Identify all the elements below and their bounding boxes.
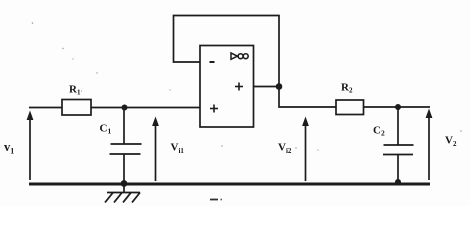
svg-text:C1: C1 bbox=[100, 123, 112, 136]
svg-text:v1: v1 bbox=[4, 140, 14, 156]
svg-text:R2: R2 bbox=[341, 82, 353, 95]
svg-text:C2: C2 bbox=[373, 125, 385, 138]
svg-text:V2: V2 bbox=[445, 135, 457, 149]
svg-text:R1: R1 bbox=[69, 84, 81, 97]
svg-text:Vi1: Vi1 bbox=[171, 142, 185, 156]
svg-text:Vi2: Vi2 bbox=[278, 142, 292, 156]
